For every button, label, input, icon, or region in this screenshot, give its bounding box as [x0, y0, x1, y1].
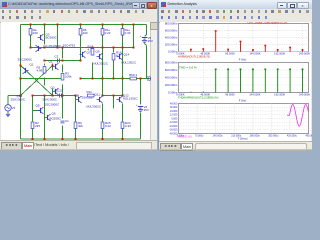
plot2 THD frame	[179, 63, 309, 93]
green THD stems	[190, 91, 192, 94]
wire r2 top	[44, 64, 46, 66]
svg-text:BC550C: BC550C	[50, 117, 62, 121]
node junction	[102, 138, 104, 140]
wire col x102 upper	[102, 25, 104, 96]
svg-text:OPS_Shdtw_JShkr.spankFS.CIR: OPS_Shdtw_JShkr.spankFS.CIR	[248, 22, 288, 24]
wire col x80 top	[80, 25, 82, 61]
battery V6 45V	[136, 104, 149, 112]
svg-text:R50 4: R50 4	[129, 73, 137, 77]
wire r2b stub	[32, 129, 34, 140]
transistor Q4 2N4393C	[36, 44, 62, 52]
wire col x30 top	[30, 25, 32, 48]
svg-text:350.000u: 350.000u	[268, 134, 279, 137]
svg-text:MJL3302C: MJL3302C	[87, 105, 102, 109]
node junction	[62, 78, 64, 80]
wire left rail	[20, 25, 22, 140]
svg-text:400.000m: 400.000m	[165, 36, 178, 40]
svg-text:144.000K: 144.000K	[249, 52, 260, 56]
svg-text:MJL3302C: MJL3302C	[94, 62, 109, 66]
svg-text:Q9: Q9	[96, 50, 100, 54]
node junction	[122, 47, 124, 49]
wire bias row y47	[31, 47, 134, 49]
svg-text:45V: 45V	[144, 108, 149, 112]
svg-text:600.000m: 600.000m	[165, 28, 178, 32]
wire col x75	[75, 96, 77, 122]
wire col x57 top	[57, 25, 59, 48]
wire col x122 lower	[122, 104, 124, 122]
svg-text:MJL1302C: MJL1302C	[123, 96, 138, 100]
wire v3 stub	[7, 111, 9, 113]
svg-text:2SC4793: 2SC4793	[63, 44, 76, 48]
svg-text:100: 100	[83, 31, 88, 35]
wire output row y78	[81, 78, 151, 80]
wire q1 col	[52, 64, 54, 71]
right vertical scrollbar of schematic	[150, 22, 157, 140]
svg-text:144.000K: 144.000K	[249, 93, 260, 97]
svg-text:C1: C1	[65, 119, 69, 123]
svg-text:0.33: 0.33	[125, 124, 131, 128]
transistor Q9	[96, 50, 103, 60]
toolbars	[0, 9, 157, 23]
wire r2 bot	[44, 78, 46, 86]
node junction	[44, 24, 46, 26]
svg-text:0.33: 0.33	[125, 31, 131, 35]
transistor Q3 BC560C	[38, 33, 58, 41]
wire col x62 b	[62, 65, 64, 73]
transistor Q12 MJL1302C	[117, 94, 139, 103]
svg-text:192.000K: 192.000K	[274, 52, 285, 56]
svg-text:BC560C: BC560C	[46, 35, 58, 39]
wire col x102 lower	[102, 104, 104, 122]
svg-text:THD = 0,6 %: THD = 0,6 %	[179, 66, 197, 70]
wire q6 col	[44, 96, 46, 140]
wire col x62 a	[62, 48, 64, 59]
wire col x92 b	[92, 63, 94, 79]
wire q8 stub	[78, 96, 80, 97]
wire top positive rail	[21, 24, 147, 26]
svg-text:600.000m: 600.000m	[165, 68, 178, 72]
node junction	[44, 138, 46, 140]
node junction	[44, 95, 46, 97]
resistor R2 4.99	[37, 66, 46, 74]
resistor Ra 230	[29, 28, 38, 35]
transistor Q11	[95, 93, 103, 103]
transistor Q1	[49, 60, 59, 70]
node junction	[122, 24, 124, 26]
svg-text:800.000m: 800.000m	[165, 22, 178, 25]
node junction	[32, 138, 34, 140]
node junction	[52, 95, 54, 97]
battery V5 45V	[140, 35, 153, 43]
wire row y95 right	[103, 95, 123, 97]
node junction	[62, 95, 64, 97]
transistor Q7	[80, 51, 91, 58]
svg-text:-36.000: -36.000	[169, 129, 178, 132]
capacitor C3	[55, 55, 60, 63]
resistor R16 4.7	[112, 51, 122, 61]
wire col x62 d	[62, 96, 64, 119]
node junction	[102, 24, 104, 26]
svg-text:T (Secs): T (Secs)	[237, 136, 247, 140]
wire cross b	[21, 66, 53, 96]
node junction	[80, 60, 82, 62]
red harmonic stems HARM(V(OUT))	[190, 50, 192, 52]
resistor R6 100	[79, 28, 88, 35]
node junction	[102, 47, 104, 49]
svg-text:12.000: 12.000	[170, 114, 178, 117]
left window: Micro-Cap 8 schematic editor	[0, 0, 157, 150]
plot3 transient frame	[179, 104, 309, 134]
node junction	[122, 78, 124, 80]
node junction	[62, 138, 64, 140]
svg-text:MJL1302C: MJL1302C	[122, 61, 137, 65]
node junction	[140, 78, 142, 80]
wire input link	[8, 95, 21, 97]
schematic client area	[1, 22, 150, 140]
source V3	[5, 105, 16, 111]
svg-text:C3: C3	[55, 55, 59, 59]
output probe terminal	[148, 76, 151, 81]
wire col x44 top	[44, 25, 46, 45]
svg-text:V3: V3	[12, 106, 16, 110]
svg-text:Q14: Q14	[124, 53, 130, 57]
node junction	[20, 65, 22, 67]
wire v6 bot	[140, 113, 142, 140]
svg-text:Q1: Q1	[49, 60, 53, 64]
node junction	[57, 24, 59, 26]
wire col x102 stub	[102, 129, 104, 140]
node junction	[30, 47, 32, 49]
svg-text:R11: R11	[87, 90, 93, 94]
resistor R3 100k	[61, 72, 72, 81]
wire right rail top	[146, 25, 148, 35]
resistor R11	[87, 90, 95, 97]
node junction	[122, 95, 124, 97]
svg-text:0.000: 0.000	[171, 117, 178, 120]
wire right rail mid	[146, 46, 148, 79]
plot1 harmonic spectrum frame	[179, 24, 309, 52]
plot client area	[160, 22, 311, 141]
bottom tab bar	[0, 140, 157, 149]
svg-text:40k: 40k	[78, 124, 83, 128]
svg-text:70.000u: 70.000u	[195, 134, 204, 137]
svg-text:420.000u: 420.000u	[287, 134, 298, 137]
transistor Q14	[117, 53, 130, 60]
svg-text:2SA1306C: 2SA1306C	[43, 98, 58, 102]
transistor Q6	[45, 112, 56, 121]
svg-text:200.000m: 200.000m	[165, 43, 178, 47]
svg-text:4.99: 4.99	[37, 68, 43, 72]
svg-text:96.000K: 96.000K	[225, 93, 235, 97]
node junction	[133, 47, 135, 49]
wire col x92 a	[92, 48, 94, 56]
resistor R2 235	[31, 121, 40, 129]
svg-text:HARM(V(OUT),2,0E08,76): HARM(V(OUT),2,0E08,76)	[178, 54, 210, 58]
svg-text:235: 235	[35, 124, 40, 128]
node junction	[20, 78, 22, 80]
bottom tab bar	[159, 141, 312, 150]
svg-text:Q5: Q5	[36, 104, 40, 108]
resistor R25 0.22	[101, 121, 111, 129]
svg-text:C(C2): C(C2)	[55, 89, 63, 93]
node junction	[30, 24, 32, 26]
node junction	[102, 78, 104, 80]
svg-text:800.000m: 800.000m	[165, 60, 178, 64]
node junction	[102, 95, 104, 97]
magenta V(OUT) sine burst	[287, 105, 308, 127]
svg-text:Q11: Q11	[95, 93, 101, 97]
node junction	[62, 47, 64, 49]
wire v5 jog2	[145, 44, 147, 46]
svg-text:48.000: 48.000	[170, 102, 178, 105]
resistor Rb+ 0.22	[101, 28, 111, 35]
node junction	[75, 138, 77, 140]
node junction	[113, 78, 115, 80]
svg-text:V(OUT) (V): V(OUT) (V)	[178, 134, 192, 138]
transistor Q1b	[23, 67, 29, 74]
svg-text:0.22: 0.22	[105, 124, 111, 128]
node junction	[44, 47, 46, 49]
node junction	[80, 24, 82, 26]
node junction	[52, 65, 54, 67]
svg-text:140.000u: 140.000u	[213, 134, 224, 137]
svg-text:230: 230	[33, 31, 38, 35]
wire row y95	[33, 95, 76, 97]
wire v3 up	[7, 96, 9, 105]
svg-text:200.000m: 200.000m	[165, 83, 178, 87]
wire r9 stub	[75, 129, 77, 140]
capacitor C1	[61, 119, 70, 123]
wire col x113 a	[113, 48, 115, 53]
node junction	[75, 95, 77, 97]
svg-text:Q4 2N4393C: Q4 2N4393C	[44, 44, 62, 48]
svg-text:-12.000: -12.000	[169, 121, 178, 124]
svg-text:240.000K: 240.000K	[299, 52, 310, 56]
svg-text:192.000K: 192.000K	[274, 93, 285, 97]
wire v6 top	[140, 79, 142, 105]
wire q2 col	[52, 89, 54, 96]
wire q5 col	[32, 96, 34, 111]
capacitor C(C2)	[55, 89, 63, 98]
svg-text:240.000K: 240.000K	[299, 93, 310, 97]
svg-text:2SC2000C: 2SC2000C	[45, 103, 61, 107]
svg-text:4.7: 4.7	[88, 47, 93, 51]
ground	[6, 113, 10, 117]
svg-text:-24.000: -24.000	[169, 125, 178, 128]
node junction	[113, 47, 115, 49]
svg-text:490.000u: 490.000u	[305, 134, 312, 137]
resistor Ra+ 0.33	[121, 28, 131, 35]
svg-text:Q6: Q6	[52, 112, 56, 116]
right window: Detection Analysis	[158, 0, 312, 150]
wire row y60	[45, 60, 81, 62]
wire col x122 upper	[122, 25, 124, 96]
svg-text:+: +	[140, 35, 142, 38]
svg-text:THD(HARM(V(OUT)),2,0E08) (%): THD(HARM(V(OUT)),2,0E08) (%)	[178, 95, 219, 99]
node junction	[44, 60, 46, 62]
wire col x62 e	[62, 126, 64, 140]
wire q5 base	[33, 110, 41, 112]
resistor R13 4.7	[88, 45, 94, 56]
wire col x122 stub	[122, 129, 124, 140]
transistor Q2	[51, 86, 59, 95]
svg-text:0.22: 0.22	[105, 31, 111, 35]
svg-text:F (Hz): F (Hz)	[239, 58, 247, 62]
resistor R24 0.33	[121, 121, 131, 129]
node junction	[20, 95, 22, 97]
svg-text:Q1: Q1	[30, 63, 34, 67]
svg-text:96.000K: 96.000K	[225, 52, 235, 56]
wire v5 jog	[145, 35, 147, 37]
wire row y78 left	[21, 78, 63, 80]
node junction	[92, 47, 94, 49]
svg-text:100k: 100k	[65, 74, 72, 78]
resistor R50 4	[129, 73, 137, 80]
wire cross a	[21, 66, 53, 96]
svg-text:36.000: 36.000	[170, 106, 178, 109]
svg-text:45V: 45V	[148, 39, 153, 43]
svg-text:2SC2000C: 2SC2000C	[18, 58, 34, 62]
wire col x113 b	[113, 61, 115, 79]
node junction	[32, 95, 34, 97]
node junction	[92, 78, 94, 80]
wire col x113 c	[113, 96, 115, 109]
node junction	[113, 95, 115, 97]
node junction	[57, 47, 59, 49]
transistor Q8	[75, 94, 82, 103]
svg-text:2SA1300C: 2SA1300C	[11, 98, 26, 102]
wire col x62 c	[62, 85, 64, 96]
node junction	[80, 78, 82, 80]
wire col x133 top	[133, 25, 135, 48]
svg-text:F (Hz): F (Hz)	[239, 99, 247, 103]
node junction	[133, 24, 135, 26]
node junction	[122, 138, 124, 140]
svg-text:280.000u: 280.000u	[250, 134, 261, 137]
wire q5 col2	[32, 111, 34, 122]
transistor Q5	[36, 104, 44, 114]
resistor R9 40k	[74, 121, 83, 129]
node junction	[62, 60, 64, 62]
svg-text:400.000m: 400.000m	[165, 75, 178, 79]
svg-text:24.000: 24.000	[170, 110, 178, 113]
svg-text:+: +	[136, 104, 138, 107]
wire bottom negative rail	[21, 138, 141, 140]
